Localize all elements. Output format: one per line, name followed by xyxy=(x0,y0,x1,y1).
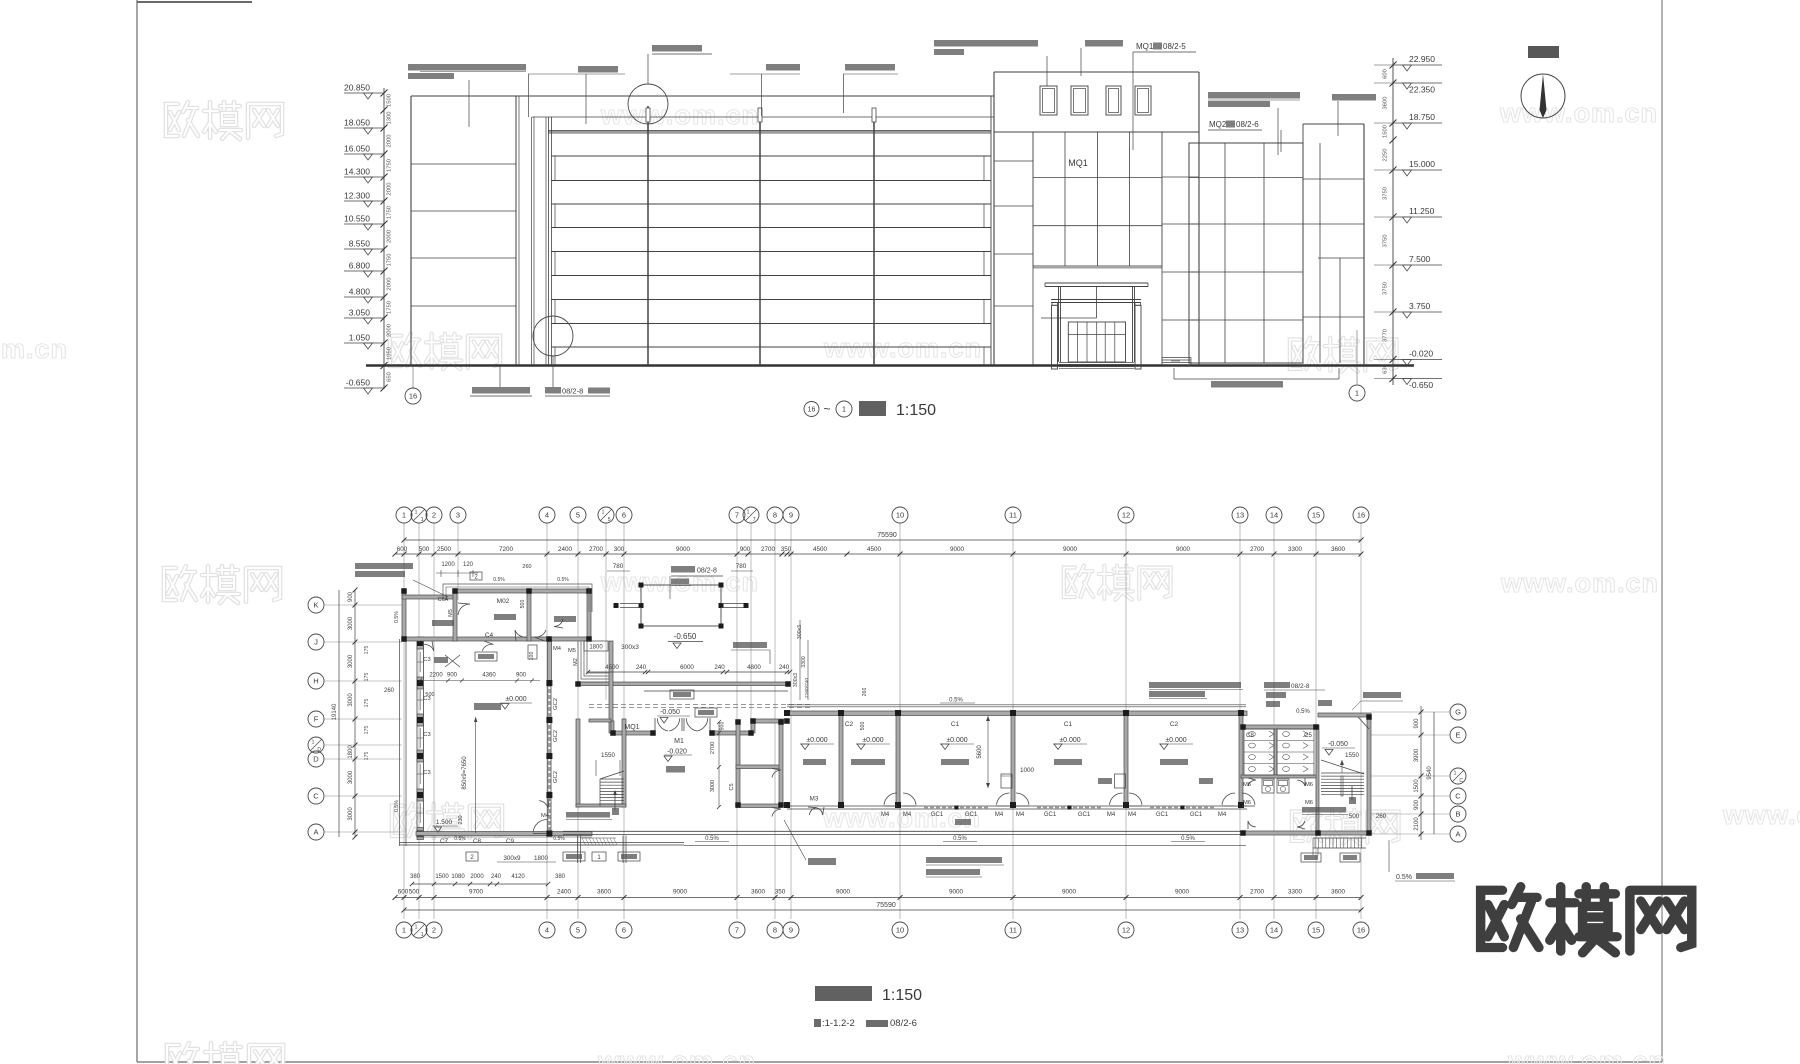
svg-text:3: 3 xyxy=(456,511,460,520)
watermark omw plan-topright xyxy=(1064,566,1171,600)
plan rest room partition xyxy=(736,765,781,769)
svg-text:E: E xyxy=(1455,731,1460,740)
svg-text:1: 1 xyxy=(842,405,846,414)
svg-text:2700: 2700 xyxy=(1250,546,1265,553)
svg-text:2100: 2100 xyxy=(1414,817,1420,831)
svg-text:±0.000: ±0.000 xyxy=(946,737,967,744)
elevation entrance glazing xyxy=(1068,322,1125,362)
svg-text:0.5%: 0.5% xyxy=(454,836,466,842)
svg-text:7: 7 xyxy=(753,517,756,523)
svg-text:850x9=7650: 850x9=7650 xyxy=(462,756,468,790)
svg-text:M4: M4 xyxy=(541,813,550,819)
svg-text:2000: 2000 xyxy=(387,324,393,337)
elevation note window sill center xyxy=(934,40,1038,47)
svg-text:2400: 2400 xyxy=(557,889,572,896)
elevation note detail 08/2-8 bottom xyxy=(545,387,561,394)
plan bottom dimension chain row1 xyxy=(412,883,548,885)
plan toilet north wall xyxy=(1241,725,1318,729)
svg-text:M6: M6 xyxy=(1243,800,1251,806)
svg-text:1750: 1750 xyxy=(387,254,393,267)
svg-text:MQ1: MQ1 xyxy=(624,724,639,731)
plan canopy label menteou 08/2-8 xyxy=(671,566,695,573)
plan toilet corner diagonal xyxy=(1358,717,1369,729)
svg-text:1800: 1800 xyxy=(589,645,603,651)
svg-text:6.800: 6.800 xyxy=(349,261,371,271)
elevation note window sill right xyxy=(1208,92,1300,99)
svg-text:175: 175 xyxy=(364,699,370,708)
svg-text:A: A xyxy=(313,828,318,837)
elevation curtain wall MQ1 panel xyxy=(1033,132,1162,266)
plan stair block north wall xyxy=(1318,713,1371,717)
svg-text:500: 500 xyxy=(860,722,866,731)
plan wing south walk line xyxy=(684,845,1246,847)
svg-text:7.500: 7.500 xyxy=(1409,254,1431,264)
elevation left stair block xyxy=(410,96,412,365)
svg-text:2700: 2700 xyxy=(1250,889,1265,896)
plan wall step to wing xyxy=(751,719,755,733)
elevation note red-brown paint 3 xyxy=(1332,94,1376,101)
plan wing column squares xyxy=(784,710,790,716)
svg-text:GC1: GC1 xyxy=(1156,812,1169,818)
svg-text:260: 260 xyxy=(862,688,868,697)
svg-text:1000: 1000 xyxy=(1020,767,1035,774)
plan stairwell walls xyxy=(576,719,580,807)
svg-text::1-1.2-2: :1-1.2-2 xyxy=(822,1018,855,1029)
svg-text:J: J xyxy=(314,638,318,647)
svg-text:7: 7 xyxy=(735,926,739,935)
svg-text:2: 2 xyxy=(432,511,436,520)
svg-text:www.om.cn: www.om.cn xyxy=(1507,1046,1666,1064)
svg-text:C8: C8 xyxy=(1246,733,1254,739)
svg-text:MQ2: MQ2 xyxy=(1209,120,1227,129)
svg-text:±0.000: ±0.000 xyxy=(1059,737,1080,744)
svg-text:-0.020: -0.020 xyxy=(667,749,687,756)
svg-text:1800: 1800 xyxy=(348,745,354,759)
svg-text:C: C xyxy=(1455,792,1461,801)
svg-text:08/2-5: 08/2-5 xyxy=(1163,42,1186,51)
north arrow symbol xyxy=(1521,74,1565,118)
plan toilet inner wall horizontal xyxy=(1241,775,1318,778)
svg-text:9000: 9000 xyxy=(1062,889,1077,896)
svg-text:500: 500 xyxy=(409,889,420,896)
svg-text:16: 16 xyxy=(1357,926,1365,935)
elevation left dimension stack line xyxy=(383,88,385,389)
plan right stair treads xyxy=(1321,772,1364,774)
svg-text:C3: C3 xyxy=(423,732,430,738)
plan column squares left block xyxy=(401,588,407,594)
svg-text:3770: 3770 xyxy=(1383,329,1389,342)
plan big room podium cross xyxy=(445,655,460,667)
svg-text:650: 650 xyxy=(387,372,393,382)
plan preparation room top door xyxy=(458,604,470,615)
svg-text:1: 1 xyxy=(421,517,424,523)
svg-text:240: 240 xyxy=(636,664,647,671)
svg-text:1: 1 xyxy=(747,510,750,516)
svg-text:3000: 3000 xyxy=(348,807,354,821)
plan wing partitions xyxy=(839,715,843,803)
svg-text:18.750: 18.750 xyxy=(1409,112,1435,122)
svg-text:22.950: 22.950 xyxy=(1409,54,1435,64)
svg-text:M1: M1 xyxy=(674,738,684,745)
svg-text:1550: 1550 xyxy=(1345,752,1360,759)
svg-text:3600: 3600 xyxy=(751,889,766,896)
svg-text:2160/240: 2160/240 xyxy=(804,678,810,698)
svg-text:8: 8 xyxy=(773,926,777,935)
svg-text:C5: C5 xyxy=(729,783,735,790)
watermark omw plan-left xyxy=(164,566,280,603)
plan stair label xyxy=(566,812,610,818)
svg-text:0.5%: 0.5% xyxy=(553,836,565,842)
plan left total 19140 xyxy=(338,590,340,837)
plan left block interior wall horizontal xyxy=(404,637,589,641)
svg-text:300x3: 300x3 xyxy=(621,644,639,651)
svg-text:7200: 7200 xyxy=(499,546,514,553)
svg-text:1:150: 1:150 xyxy=(882,987,922,1004)
plan bottom grid bubbles xyxy=(396,922,412,938)
plan partition projection room xyxy=(527,593,531,641)
plan wing GC1 window bands xyxy=(924,806,989,809)
svg-text:22.350: 22.350 xyxy=(1409,85,1435,95)
svg-text:1: 1 xyxy=(421,932,424,938)
elevation note seam bracket right xyxy=(1174,378,1339,380)
plan corridor inner line xyxy=(644,690,788,692)
svg-text:3600: 3600 xyxy=(597,889,612,896)
svg-text:M4: M4 xyxy=(553,646,562,652)
plan wing north wall xyxy=(785,711,1247,716)
plan power room door M3 xyxy=(809,808,816,815)
svg-text:900: 900 xyxy=(348,591,354,602)
svg-text:1550: 1550 xyxy=(601,752,616,759)
svg-text:www.om.cn: www.om.cn xyxy=(597,1046,756,1064)
svg-text:M02: M02 xyxy=(497,598,510,605)
svg-text:C6A: C6A xyxy=(438,597,449,603)
plan note masonry rail xyxy=(926,857,1002,863)
svg-text:1: 1 xyxy=(402,511,406,520)
svg-text:900: 900 xyxy=(447,673,458,679)
plan wing north walkway lines xyxy=(787,704,1246,706)
svg-text:08/2-6: 08/2-6 xyxy=(1236,120,1259,129)
svg-text:4360: 4360 xyxy=(482,673,496,679)
svg-text:20.850: 20.850 xyxy=(344,83,370,93)
page frame top border segment xyxy=(137,1,252,3)
svg-text:4: 4 xyxy=(545,511,549,520)
plan canopy overhead dashed lines xyxy=(589,704,812,706)
svg-text:±0.000: ±0.000 xyxy=(505,696,526,703)
svg-text:1200: 1200 xyxy=(441,562,455,568)
svg-text:75590: 75590 xyxy=(876,902,896,909)
plan left block west wall upper xyxy=(402,589,406,641)
svg-text:380: 380 xyxy=(410,874,421,880)
svg-text:230: 230 xyxy=(458,815,464,824)
plan toilet partition center xyxy=(1274,729,1277,775)
svg-text:175: 175 xyxy=(364,673,370,682)
elevation band thick gray line xyxy=(548,130,991,133)
plan right total 9540 xyxy=(1433,712,1435,834)
svg-text:C1: C1 xyxy=(1064,721,1073,728)
svg-text:100: 100 xyxy=(529,652,535,661)
svg-text:1800: 1800 xyxy=(534,855,549,862)
svg-text:H: H xyxy=(313,677,318,686)
plan column squares toilet block xyxy=(1240,724,1246,730)
svg-text:GC1: GC1 xyxy=(931,812,944,818)
plan big room west wall with C3 windows xyxy=(416,639,418,835)
svg-text:10: 10 xyxy=(896,926,904,935)
plan toilet south porch steps xyxy=(1313,837,1366,839)
svg-text:GC1: GC1 xyxy=(965,812,978,818)
svg-text:C7: C7 xyxy=(440,838,449,845)
plan note toilet detail xyxy=(1264,682,1290,688)
svg-text:18.050: 18.050 xyxy=(344,118,370,128)
svg-text:M3: M3 xyxy=(810,796,819,803)
svg-text:M4: M4 xyxy=(995,812,1004,818)
svg-text:0.5%: 0.5% xyxy=(493,577,505,583)
svg-text:1750: 1750 xyxy=(387,159,393,172)
svg-text:C4: C4 xyxy=(485,632,494,639)
plan top grid bubbles xyxy=(396,507,412,523)
plan toilet stair partition xyxy=(1316,725,1319,835)
svg-text:C: C xyxy=(313,792,319,801)
svg-text:9000: 9000 xyxy=(836,889,851,896)
svg-text:4500: 4500 xyxy=(605,664,619,671)
plan rest room west wall xyxy=(736,720,740,807)
svg-text:5: 5 xyxy=(608,517,611,523)
svg-text:4120: 4120 xyxy=(511,874,525,880)
plan slope leader note right xyxy=(1388,840,1390,872)
svg-text:9000: 9000 xyxy=(676,546,691,553)
plan column squares entrance area xyxy=(610,730,616,736)
svg-text:3000: 3000 xyxy=(348,693,354,707)
svg-text:1: 1 xyxy=(1355,389,1359,398)
watermark omw elevation-right xyxy=(1290,338,1397,372)
svg-text:2700: 2700 xyxy=(710,742,716,754)
svg-text:4500: 4500 xyxy=(813,546,828,553)
elevation far right block xyxy=(1303,123,1364,125)
svg-text:1: 1 xyxy=(602,510,605,516)
plan title yiceng pingmian 1:150 xyxy=(815,986,872,1001)
svg-text:2500: 2500 xyxy=(437,546,452,553)
svg-text:15: 15 xyxy=(1312,511,1320,520)
svg-text:12.300: 12.300 xyxy=(344,191,370,201)
svg-text:9000: 9000 xyxy=(1175,889,1190,896)
svg-text:C8: C8 xyxy=(473,838,482,845)
svg-text:0.5%: 0.5% xyxy=(1181,836,1195,842)
plan grid vertical lines xyxy=(403,523,405,919)
svg-text:C3: C3 xyxy=(423,696,430,702)
svg-text:A: A xyxy=(1455,830,1460,839)
svg-text:10: 10 xyxy=(896,511,904,520)
svg-text:C5: C5 xyxy=(1304,733,1312,739)
plan wing classroom doors M4 xyxy=(884,793,897,805)
watermark omw bottom-cut xyxy=(167,1043,283,1064)
svg-text:13: 13 xyxy=(1236,926,1244,935)
svg-text:C2: C2 xyxy=(1170,721,1179,728)
svg-text:C9: C9 xyxy=(506,838,515,845)
svg-text:M6: M6 xyxy=(1305,800,1313,806)
plan flower bed label xyxy=(733,642,767,648)
svg-text:M4: M4 xyxy=(1128,812,1137,818)
page frame bottom border xyxy=(137,1061,1662,1063)
svg-text:900: 900 xyxy=(516,673,527,679)
svg-text:GC2: GC2 xyxy=(553,771,559,783)
svg-text:www.om.cn: www.om.cn xyxy=(1499,98,1658,128)
svg-text:120: 120 xyxy=(463,562,474,568)
svg-text:M5: M5 xyxy=(448,609,454,617)
svg-text:08/2-8: 08/2-8 xyxy=(1291,683,1310,690)
elevation left block inner strip lines xyxy=(518,96,520,365)
svg-text:2400: 2400 xyxy=(558,546,573,553)
plan hall west wall xyxy=(609,641,613,733)
svg-text:175: 175 xyxy=(364,752,370,761)
svg-text:3750: 3750 xyxy=(1383,235,1389,248)
svg-text:M4: M4 xyxy=(1218,812,1227,818)
svg-text:D: D xyxy=(313,755,319,764)
svg-text:www.om.cn: www.om.cn xyxy=(0,334,68,364)
svg-text:600: 600 xyxy=(398,889,409,896)
watermark omw plan-center xyxy=(392,804,502,839)
svg-text:G: G xyxy=(1455,708,1461,717)
plan big room east wall with GC2 windows xyxy=(548,639,552,683)
svg-text:3300: 3300 xyxy=(801,656,807,668)
svg-text:2: 2 xyxy=(432,926,436,935)
plan left block north wall B xyxy=(453,589,591,593)
svg-text:14.300: 14.300 xyxy=(344,167,370,177)
plan toilet stalls left bank xyxy=(1244,729,1274,775)
svg-text:www.om.cn: www.om.cn xyxy=(600,100,759,130)
watermark omw plan-right xyxy=(1292,810,1399,844)
plan partition preparation room xyxy=(453,593,457,641)
plan bottom mid step boxes xyxy=(466,852,478,861)
svg-text:3000: 3000 xyxy=(348,654,354,668)
svg-text:6: 6 xyxy=(622,926,626,935)
svg-text:-0.650: -0.650 xyxy=(346,378,370,388)
svg-text:9000: 9000 xyxy=(1176,546,1191,553)
plan rest room doors M5 xyxy=(772,770,781,777)
svg-text:3.050: 3.050 xyxy=(349,308,371,318)
svg-text:11: 11 xyxy=(1009,511,1017,520)
svg-text:4: 4 xyxy=(545,926,549,935)
svg-text:C2: C2 xyxy=(845,721,854,728)
elevation detail circle bottom xyxy=(533,316,573,356)
svg-text:08/2-6: 08/2-6 xyxy=(890,1018,917,1029)
plan right letter grid bubbles xyxy=(1450,704,1466,720)
svg-text:1: 1 xyxy=(402,926,406,935)
svg-text:11.250: 11.250 xyxy=(1409,206,1435,216)
plan entrance storefront wall MQ1 xyxy=(611,731,655,735)
svg-text:7: 7 xyxy=(735,511,739,520)
plan rest room south wall xyxy=(736,804,781,808)
svg-text:14: 14 xyxy=(1270,511,1278,520)
svg-text:16: 16 xyxy=(1357,511,1365,520)
elevation right dimension stack line xyxy=(1392,58,1394,385)
svg-text:K: K xyxy=(313,601,318,610)
svg-text:240: 240 xyxy=(714,664,725,671)
svg-text:1500: 1500 xyxy=(1414,779,1420,793)
elevation right MQ2 block xyxy=(1189,143,1303,363)
plan note water pipes xyxy=(1363,692,1401,698)
svg-text:C: C xyxy=(1459,778,1463,784)
svg-text:www.om.cn: www.om.cn xyxy=(1500,568,1659,598)
plan left block east wall upper xyxy=(587,589,591,641)
svg-text:900: 900 xyxy=(740,546,751,553)
svg-text:600: 600 xyxy=(1383,69,1389,79)
svg-text:4800: 4800 xyxy=(747,664,761,671)
svg-text:4.800: 4.800 xyxy=(349,287,371,297)
svg-text:C3: C3 xyxy=(423,770,430,776)
svg-text:1: 1 xyxy=(415,510,418,516)
plan right dimension chain xyxy=(1420,706,1422,840)
svg-text:2000: 2000 xyxy=(387,278,393,291)
watermark omw elevation-left xyxy=(390,334,500,369)
plan wing south wall thin lines xyxy=(787,805,1247,807)
plan right stair up arrow xyxy=(1351,786,1353,800)
elevation detail circle top xyxy=(628,84,668,124)
svg-text:3750: 3750 xyxy=(1383,187,1389,200)
svg-text:9000: 9000 xyxy=(673,889,688,896)
plan canopy plan rectangle xyxy=(641,585,721,626)
plan note window wall height800 xyxy=(1149,682,1241,688)
svg-text:0.5%: 0.5% xyxy=(557,577,569,583)
plan entrance doors M1 xyxy=(657,718,668,731)
svg-text:19140: 19140 xyxy=(332,703,338,720)
svg-text:0.5%: 0.5% xyxy=(1396,874,1412,881)
svg-text:14: 14 xyxy=(1270,926,1278,935)
plan rest room east wall xyxy=(779,720,783,807)
elevation grid bubble 1 xyxy=(1356,330,1358,384)
plan toilet doors M6 xyxy=(1248,780,1256,786)
svg-text:75590: 75590 xyxy=(877,532,897,539)
svg-text:GC1: GC1 xyxy=(1190,812,1203,818)
svg-text:GC2: GC2 xyxy=(553,730,559,742)
plan wing interior dim verticals xyxy=(799,620,801,700)
elevation tower top windows xyxy=(1040,86,1057,115)
svg-text:5: 5 xyxy=(576,926,580,935)
svg-text:9700: 9700 xyxy=(469,889,484,896)
plan left block canopy outline xyxy=(443,584,592,612)
svg-text:C1: C1 xyxy=(951,721,960,728)
plan porch step boxes xyxy=(1301,853,1321,862)
svg-text:-0.020: -0.020 xyxy=(1409,349,1433,359)
page frame right border xyxy=(1661,0,1663,1062)
svg-text:-0.050: -0.050 xyxy=(660,709,680,716)
svg-text:GC1: GC1 xyxy=(1078,812,1091,818)
plan toilet stalls right bank xyxy=(1277,729,1314,775)
svg-text:M4: M4 xyxy=(903,812,912,818)
elevation horizontal window bands xyxy=(551,155,991,157)
elevation note white paint 1 xyxy=(578,66,618,73)
svg-text:900: 900 xyxy=(720,722,726,731)
elevation right base louver xyxy=(1162,357,1191,359)
svg-text:3.750: 3.750 xyxy=(1409,301,1431,311)
svg-text:9: 9 xyxy=(789,926,793,935)
svg-text:2000: 2000 xyxy=(470,874,484,880)
svg-text:2000: 2000 xyxy=(387,183,393,196)
svg-text:M6: M6 xyxy=(1305,782,1313,788)
svg-text:3600: 3600 xyxy=(1331,889,1346,896)
svg-text:1750: 1750 xyxy=(387,301,393,314)
svg-text:3750: 3750 xyxy=(1383,282,1389,295)
svg-text:M4: M4 xyxy=(1107,812,1116,818)
svg-text:1.500: 1.500 xyxy=(436,819,453,826)
svg-text:1750: 1750 xyxy=(387,206,393,219)
svg-text:11: 11 xyxy=(1009,926,1017,935)
elevation title 16~1 facade 1:150 xyxy=(804,402,819,417)
svg-text:±0.000: ±0.000 xyxy=(806,737,827,744)
svg-text:9540: 9540 xyxy=(1427,766,1433,780)
svg-text:780: 780 xyxy=(613,563,624,570)
svg-text:1: 1 xyxy=(1454,771,1457,777)
plan door arcs left block xyxy=(423,644,434,651)
svg-text:0.5%: 0.5% xyxy=(1296,709,1310,715)
